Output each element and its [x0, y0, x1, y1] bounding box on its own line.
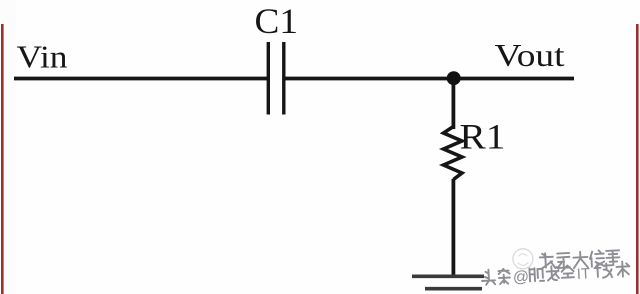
svg-text:IT: IT — [576, 265, 590, 283]
svg-text:@: @ — [512, 269, 529, 287]
svg-text:Vout: Vout — [495, 37, 565, 73]
svg-text:R1: R1 — [460, 117, 506, 157]
svg-text:C1: C1 — [255, 1, 299, 41]
svg-text:Vin: Vin — [17, 39, 68, 75]
